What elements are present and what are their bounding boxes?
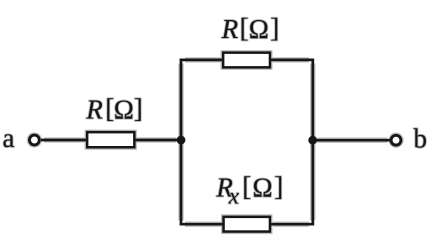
wire: right junction to terminal b — [313, 138, 391, 143]
top branch wire, right of resistor — [270, 57, 314, 62]
value label R[Omega] of series resistor — [85, 94, 143, 125]
wire: terminal a to resistor R series — [41, 137, 87, 142]
svg-text:Ω: Ω — [249, 14, 269, 44]
svg-text:R: R — [221, 14, 239, 44]
svg-text:a: a — [3, 123, 15, 153]
left vertical wire of parallel section — [178, 59, 183, 226]
svg-text:Ω: Ω — [253, 173, 273, 203]
right vertical wire of parallel section — [310, 59, 315, 226]
bottom branch wire, left of resistor — [180, 222, 224, 227]
svg-text:R: R — [85, 95, 103, 125]
terminal a (open circle) — [30, 135, 40, 145]
svg-text:]: ] — [270, 13, 279, 43]
wire: resistor R series to left junction — [135, 137, 182, 142]
resistor R top branch (box symbol) — [223, 53, 270, 68]
svg-text:]: ] — [134, 94, 143, 124]
value label R[Omega] of top branch resistor — [221, 13, 280, 44]
svg-text:]: ] — [274, 172, 283, 202]
svg-text:b: b — [414, 124, 428, 154]
junction node right (dot) — [308, 136, 317, 145]
svg-text:[: [ — [240, 13, 249, 43]
junction node left (dot) — [177, 136, 186, 145]
resistor R series (box symbol) — [87, 132, 134, 147]
svg-text:[: [ — [242, 172, 251, 202]
terminal b (open circle) — [391, 135, 401, 145]
bottom branch wire, right of resistor — [270, 222, 314, 227]
svg-text:x: x — [228, 184, 240, 209]
svg-text:Ω: Ω — [114, 95, 134, 125]
resistor Rx bottom branch (box symbol) — [224, 217, 270, 232]
value label Rx[Omega] of bottom branch resistor — [215, 172, 283, 209]
top branch wire, left of resistor — [180, 57, 223, 62]
